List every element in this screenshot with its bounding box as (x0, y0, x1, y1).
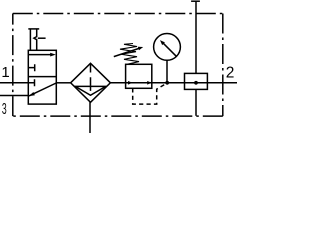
wire riser to top connection (195, 1, 197, 73)
regulator R1 adjustment spring (120, 44, 139, 65)
top connection terminator (191, 0, 200, 2)
enclosure boundary top edge (13, 13, 223, 15)
valve V1 blocked port (top position) (28, 64, 34, 71)
valve V1 exhaust flow path 2 to 3 (29, 83, 57, 96)
enclosure boundary right edge (222, 14, 224, 117)
wire port 1 supply line (0, 82, 28, 84)
valve V1 manual push-pull actuator with detent (28, 29, 45, 50)
wire gauge stem (166, 60, 168, 82)
wire port 3 exhaust line (0, 95, 28, 97)
wire valve outlet to filter (56, 82, 70, 84)
regulator R1 flow arrows (128, 81, 152, 85)
filter F1 with water separator (71, 63, 111, 102)
enclosure boundary bottom edge (13, 115, 223, 117)
svg-text:3: 3 (2, 100, 7, 117)
regulator R1 adjustment arrow (114, 47, 143, 57)
valve V1 blocked port (bottom position) (28, 79, 34, 86)
svg-text:2: 2 (226, 65, 235, 82)
enclosure boundary left edge (12, 14, 14, 117)
wire drop to bottom boundary (195, 89, 197, 115)
regulator R1 body (126, 64, 152, 88)
wire condensate drain line (89, 102, 91, 133)
svg-text:1: 1 (1, 64, 9, 81)
junction dot block B1 node (194, 81, 198, 85)
regulator R1 pilot sensing line (133, 84, 167, 105)
valve V1 flow arrow (actuated position) (28, 53, 56, 57)
distribution block B1 (185, 73, 208, 89)
valve V1 body (28, 50, 56, 104)
junction dot gauge/pilot node (165, 81, 169, 85)
pressure gauge G1 (154, 34, 181, 61)
wire filter to output port 2 (110, 82, 237, 84)
